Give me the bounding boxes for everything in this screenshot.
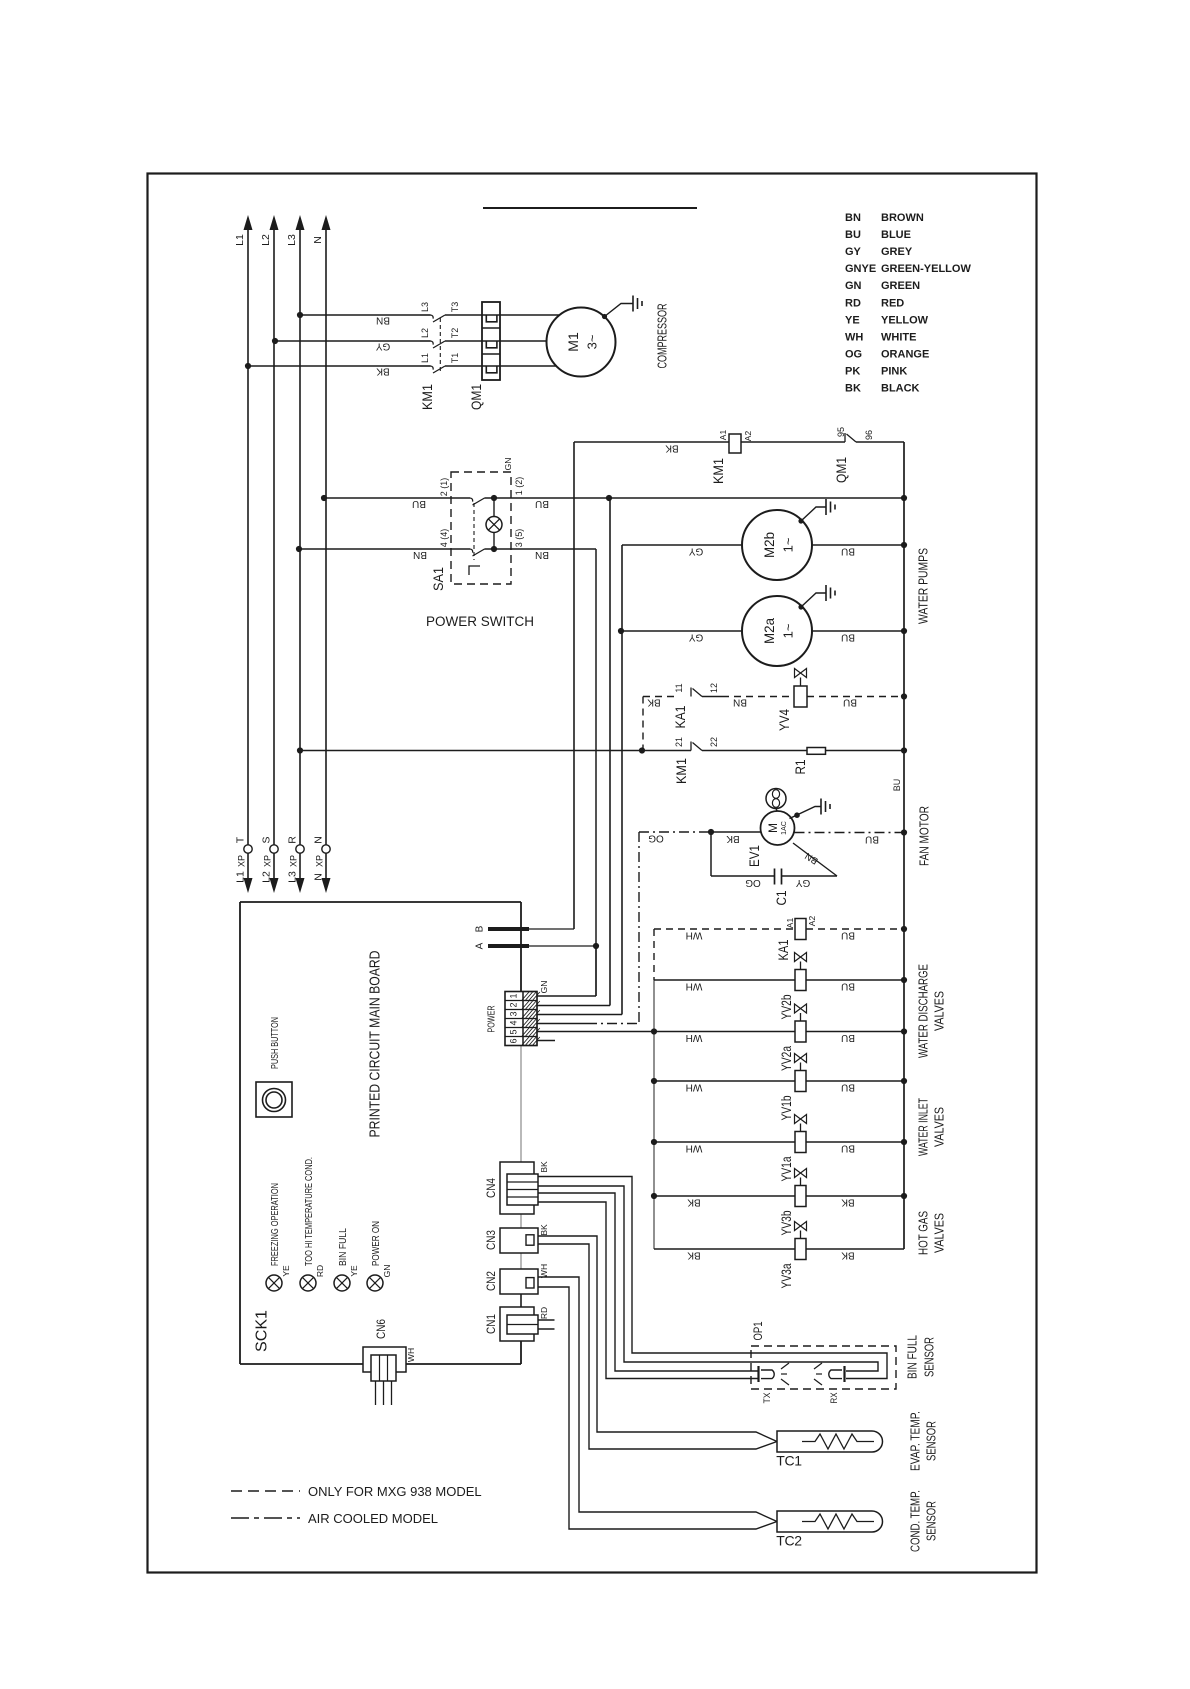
svg-text:COND. TEMP.: COND. TEMP. [909, 1490, 923, 1552]
svg-text:FAN MOTOR: FAN MOTOR [917, 806, 932, 866]
svg-text:T3: T3 [450, 302, 460, 313]
svg-text:HOT GAS: HOT GAS [917, 1211, 931, 1255]
svg-text:BLUE: BLUE [881, 229, 911, 241]
svg-text:QM1: QM1 [468, 384, 484, 410]
svg-text:L2: L2 [260, 871, 272, 883]
svg-text:GY: GY [375, 340, 390, 351]
svg-text:YV1b: YV1b [778, 1095, 794, 1120]
svg-text:RD: RD [539, 1307, 549, 1319]
svg-text:GNYE: GNYE [845, 263, 876, 275]
svg-text:VALVES: VALVES [933, 991, 947, 1031]
svg-text:VALVES: VALVES [933, 1213, 947, 1253]
svg-text:R: R [286, 836, 298, 844]
svg-text:BU: BU [841, 980, 855, 991]
svg-text:R1: R1 [792, 759, 808, 774]
svg-text:KM1: KM1 [710, 458, 726, 484]
svg-text:GY: GY [688, 631, 703, 642]
svg-text:BK: BK [687, 1249, 701, 1260]
svg-text:BK: BK [539, 1224, 549, 1236]
svg-text:KM1: KM1 [673, 758, 689, 784]
svg-text:SENSOR: SENSOR [923, 1337, 937, 1377]
svg-text:WATER INLET: WATER INLET [917, 1098, 931, 1156]
svg-text:WH: WH [686, 1032, 703, 1043]
svg-text:XP: XP [289, 855, 299, 867]
svg-text:YELLOW: YELLOW [881, 314, 929, 326]
svg-text:XP: XP [237, 855, 247, 867]
svg-text:BN: BN [376, 314, 390, 325]
svg-text:TOO HI TEMPERATURE COND.: TOO HI TEMPERATURE COND. [303, 1157, 315, 1266]
svg-text:YV2a: YV2a [778, 1046, 794, 1071]
svg-text:BK: BK [845, 383, 861, 395]
svg-text:4 (4): 4 (4) [439, 529, 449, 548]
svg-text:WH: WH [686, 929, 703, 940]
svg-text:BK: BK [376, 365, 390, 376]
svg-text:96: 96 [864, 430, 874, 440]
svg-text:AIR COOLED MODEL: AIR COOLED MODEL [308, 1511, 438, 1526]
svg-text:1~: 1~ [781, 537, 796, 552]
svg-text:L2: L2 [260, 234, 272, 246]
svg-text:BU: BU [841, 545, 855, 556]
svg-text:L1: L1 [234, 871, 246, 883]
svg-text:PRINTED CIRCUIT MAIN BOARD: PRINTED CIRCUIT MAIN BOARD [366, 950, 383, 1137]
svg-text:EV1: EV1 [746, 845, 762, 867]
svg-text:11: 11 [674, 683, 684, 692]
svg-text:GN: GN [539, 981, 549, 994]
svg-text:A: A [475, 942, 486, 949]
svg-text:TX: TX [762, 1393, 772, 1404]
svg-text:BU: BU [841, 631, 855, 642]
svg-text:BU: BU [841, 1142, 855, 1153]
svg-text:PK: PK [845, 365, 860, 377]
svg-text:BK: BK [841, 1196, 855, 1207]
svg-text:COMPRESSOR: COMPRESSOR [655, 304, 670, 369]
svg-text:CN3: CN3 [486, 1230, 498, 1250]
svg-text:GREEN: GREEN [881, 280, 920, 292]
svg-text:YE: YE [281, 1265, 291, 1277]
svg-text:1 (2): 1 (2) [514, 477, 524, 496]
svg-text:KA1: KA1 [672, 705, 688, 728]
svg-text:GN: GN [845, 280, 862, 292]
svg-text:BU: BU [865, 833, 879, 844]
svg-text:OP1: OP1 [753, 1322, 765, 1341]
svg-text:BIN FULL: BIN FULL [906, 1335, 920, 1379]
svg-text:BU: BU [843, 696, 857, 707]
svg-text:B: B [475, 925, 486, 932]
svg-text:GY: GY [688, 545, 703, 556]
svg-text:XP: XP [263, 855, 273, 867]
svg-text:6: 6 [509, 1038, 519, 1043]
svg-text:POWER SWITCH: POWER SWITCH [426, 614, 534, 629]
svg-text:A1: A1 [718, 430, 728, 441]
svg-text:SENSOR: SENSOR [925, 1421, 939, 1461]
svg-text:CN4: CN4 [486, 1177, 498, 1198]
svg-text:RD: RD [315, 1265, 325, 1277]
svg-text:BK: BK [539, 1161, 549, 1173]
svg-text:3~: 3~ [585, 334, 600, 349]
svg-text:S: S [260, 836, 272, 843]
svg-text:A1: A1 [785, 918, 795, 929]
svg-text:YE: YE [349, 1265, 359, 1277]
svg-text:YV1a: YV1a [778, 1156, 794, 1181]
svg-text:BN: BN [845, 212, 861, 224]
svg-text:YV3b: YV3b [778, 1210, 794, 1235]
svg-text:WH: WH [686, 1142, 703, 1153]
svg-text:PINK: PINK [881, 365, 907, 377]
svg-text:RX: RX [829, 1393, 839, 1404]
svg-text:WH: WH [845, 331, 863, 343]
svg-text:VALVES: VALVES [933, 1107, 947, 1147]
svg-text:BU: BU [841, 929, 855, 940]
svg-text:22: 22 [709, 737, 719, 747]
svg-text:GY: GY [845, 246, 862, 258]
svg-text:QM1: QM1 [833, 457, 849, 483]
svg-text:GN: GN [382, 1265, 392, 1278]
svg-text:YV4: YV4 [776, 709, 792, 731]
svg-text:BU: BU [892, 779, 902, 792]
svg-text:M2a: M2a [761, 618, 777, 644]
svg-text:PUSH BUTTON: PUSH BUTTON [269, 1017, 281, 1069]
svg-text:BLACK: BLACK [881, 383, 920, 395]
svg-text:SA1: SA1 [430, 567, 446, 591]
svg-text:12: 12 [709, 683, 719, 693]
svg-text:L1: L1 [420, 353, 430, 363]
svg-text:95: 95 [836, 427, 846, 437]
svg-text:GREEN-YELLOW: GREEN-YELLOW [881, 263, 971, 275]
svg-text:CN6: CN6 [376, 1319, 388, 1339]
svg-text:L3: L3 [286, 234, 298, 246]
svg-text:RED: RED [881, 297, 904, 309]
svg-text:2 (1): 2 (1) [439, 478, 449, 497]
svg-text:YV2b: YV2b [778, 994, 794, 1019]
svg-text:GN: GN [503, 458, 513, 471]
svg-text:POWER ON: POWER ON [370, 1221, 382, 1266]
svg-text:BN: BN [535, 549, 549, 560]
svg-text:M: M [766, 823, 780, 833]
svg-text:TC1: TC1 [776, 1453, 802, 1469]
svg-text:5: 5 [509, 1029, 519, 1034]
svg-text:L2: L2 [420, 328, 430, 338]
svg-text:A2: A2 [743, 431, 753, 442]
svg-text:M1: M1 [565, 332, 581, 352]
svg-text:N: N [312, 873, 324, 881]
svg-text:BK: BK [647, 696, 661, 707]
svg-text:CN2: CN2 [486, 1271, 498, 1291]
svg-text:T2: T2 [450, 328, 460, 339]
svg-text:1AC: 1AC [781, 821, 788, 835]
svg-text:BU: BU [845, 229, 861, 241]
svg-text:WH: WH [539, 1264, 549, 1278]
svg-text:OG: OG [845, 348, 862, 360]
svg-text:POWER: POWER [487, 1006, 498, 1033]
svg-text:BN: BN [413, 549, 427, 560]
svg-text:WH: WH [686, 1081, 703, 1092]
svg-text:YE: YE [845, 314, 860, 326]
svg-text:BK: BK [726, 833, 740, 844]
svg-text:BIN FULL: BIN FULL [337, 1228, 349, 1266]
svg-text:KM1: KM1 [419, 384, 435, 410]
svg-text:WH: WH [686, 980, 703, 991]
svg-text:WATER DISCHARGE: WATER DISCHARGE [917, 964, 931, 1058]
svg-text:L3: L3 [420, 302, 430, 312]
svg-text:XP: XP [315, 855, 325, 867]
svg-text:BU: BU [841, 1081, 855, 1092]
svg-text:EVAP. TEMP.: EVAP. TEMP. [909, 1411, 923, 1471]
svg-text:SENSOR: SENSOR [925, 1501, 939, 1541]
svg-text:3 (5): 3 (5) [514, 529, 524, 548]
svg-text:3: 3 [509, 1011, 519, 1016]
svg-text:N: N [312, 236, 324, 244]
svg-text:ORANGE: ORANGE [881, 348, 929, 360]
svg-text:C1: C1 [773, 890, 789, 905]
svg-text:GREY: GREY [881, 246, 913, 258]
svg-text:FREEZING OPERATION: FREEZING OPERATION [269, 1183, 281, 1266]
svg-text:T: T [234, 836, 246, 843]
svg-text:N: N [312, 836, 324, 844]
svg-text:T1: T1 [450, 353, 460, 364]
svg-text:ONLY FOR MXG 938 MODEL: ONLY FOR MXG 938 MODEL [308, 1484, 482, 1499]
svg-text:BK: BK [665, 442, 679, 453]
svg-text:M2b: M2b [761, 532, 777, 558]
svg-text:A2: A2 [807, 916, 817, 927]
svg-text:OG: OG [745, 877, 761, 888]
svg-text:BK: BK [687, 1196, 701, 1207]
svg-text:BU: BU [535, 498, 549, 509]
svg-text:SCK1: SCK1 [254, 1310, 271, 1352]
svg-text:4: 4 [509, 1020, 519, 1025]
svg-text:WATER PUMPS: WATER PUMPS [916, 548, 931, 624]
svg-text:GY: GY [795, 877, 810, 888]
svg-text:21: 21 [674, 737, 684, 747]
svg-text:WHITE: WHITE [881, 331, 916, 343]
svg-text:TC2: TC2 [776, 1533, 802, 1549]
svg-text:BU: BU [841, 1032, 855, 1043]
svg-text:BN: BN [733, 696, 747, 707]
svg-text:YV3a: YV3a [778, 1263, 794, 1288]
svg-text:RD: RD [845, 297, 861, 309]
svg-text:OG: OG [648, 832, 664, 843]
svg-text:L1: L1 [234, 234, 246, 246]
svg-text:WH: WH [406, 1348, 416, 1362]
svg-text:2: 2 [509, 1002, 519, 1007]
svg-text:1: 1 [509, 993, 519, 998]
svg-text:KA1: KA1 [775, 939, 791, 960]
svg-text:1~: 1~ [781, 623, 796, 638]
svg-text:BK: BK [841, 1249, 855, 1260]
svg-text:BU: BU [412, 498, 426, 509]
svg-text:L3: L3 [286, 871, 298, 883]
svg-text:BROWN: BROWN [881, 212, 924, 224]
svg-text:CN1: CN1 [486, 1314, 498, 1334]
